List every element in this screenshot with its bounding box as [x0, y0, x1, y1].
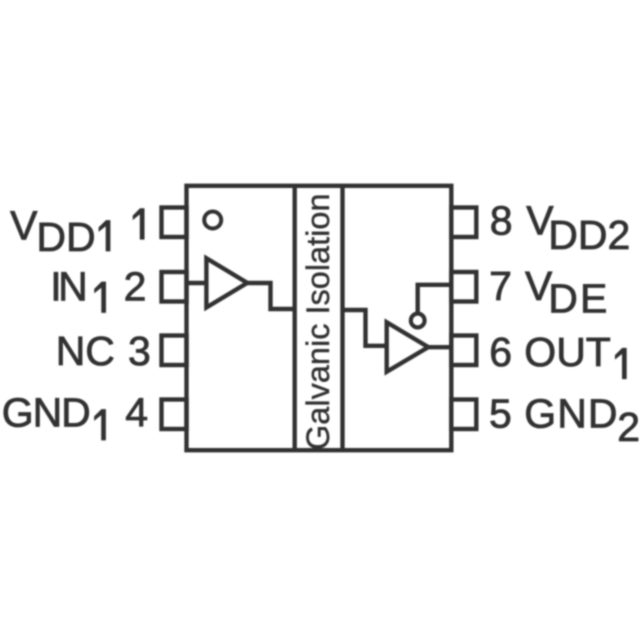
svg-text:4: 4: [125, 389, 148, 435]
buffer A1 input side triangle: [206, 258, 247, 307]
svg-text:8: 8: [490, 198, 513, 244]
svg-text:OUT: OUT: [524, 329, 611, 375]
svg-text:GND: GND: [2, 389, 91, 435]
pin 2 box: [162, 272, 187, 302]
svg-text:GND: GND: [524, 391, 617, 437]
pin 8 box: [451, 208, 476, 238]
svg-text:V: V: [10, 202, 38, 248]
isolation barrier right line: [340, 186, 344, 450]
wire buffer A1 output to isolation barrier: [247, 283, 294, 309]
pin 1 indicator circle: [204, 212, 221, 229]
svg-text:2: 2: [617, 404, 640, 450]
svg-text:DD2: DD2: [548, 212, 630, 258]
svg-text:2: 2: [124, 263, 147, 309]
pin 5 box: [451, 400, 476, 430]
svg-text:5: 5: [489, 391, 512, 437]
pin 1 box: [162, 208, 187, 238]
svg-text:Galvanic Isolation: Galvanic Isolation: [300, 193, 336, 450]
svg-text:6: 6: [489, 329, 512, 375]
wire enable bubble to pin 7: [418, 285, 452, 314]
svg-text:7: 7: [489, 263, 512, 309]
IC body U1: [187, 186, 452, 450]
svg-text:3: 3: [128, 328, 151, 374]
pin 7 box: [451, 272, 476, 302]
buffer A2 output side triangle: [387, 322, 429, 372]
wire isolation barrier to buffer A2 input: [343, 310, 387, 346]
enable bubble on buffer A2: [411, 314, 425, 328]
pin 4 box: [162, 400, 187, 430]
pin 3 box: [162, 336, 187, 366]
wire buffer A2 output to pin 6: [428, 345, 451, 349]
isolation barrier left line: [293, 186, 297, 450]
svg-text:IN: IN: [50, 263, 87, 309]
pin 6 box: [451, 336, 476, 366]
wire pin2 to buffer A1: [187, 281, 207, 285]
svg-text:NC: NC: [56, 328, 115, 374]
svg-text:DE: DE: [548, 276, 607, 322]
svg-text:DD: DD: [36, 214, 95, 260]
